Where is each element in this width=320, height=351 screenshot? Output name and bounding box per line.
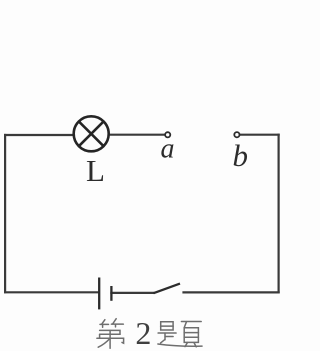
svg-text:a: a	[161, 133, 175, 164]
svg-text:L: L	[86, 153, 105, 188]
svg-text:b: b	[233, 138, 249, 173]
svg-text:2: 2	[135, 315, 151, 351]
